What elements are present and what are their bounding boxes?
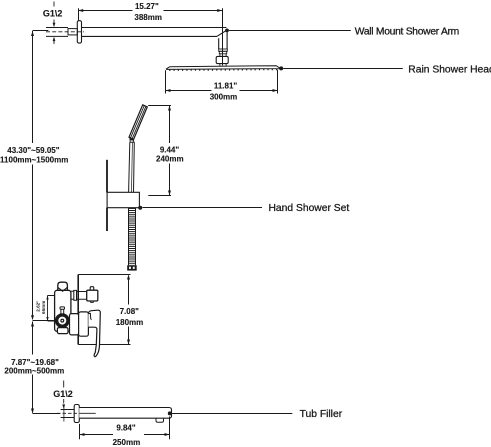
dimension 15.27" extension line right: [222, 8, 224, 65]
left dimension extension line bottom (tub spout centerline): [33, 413, 61, 415]
shower head connector: band 2: [219, 51, 226, 54]
svg-text:7.08": 7.08": [120, 307, 140, 316]
valve handle: [88, 310, 100, 357]
dimension 15.27" extension line left: [78, 8, 80, 20]
diverter bottom tick: [91, 301, 94, 302]
leader line to Hand Shower Set: [142, 207, 262, 209]
svg-text:200mm~500mm: 200mm~500mm: [4, 367, 64, 376]
valve body: [55, 290, 71, 331]
checkstop stub: [61, 309, 64, 314]
hand shower holder bracket: [107, 192, 139, 207]
svg-text:G1\2: G1\2: [43, 8, 63, 18]
slide bar upper segment: [106, 160, 108, 193]
slide bar lower segment: [106, 208, 108, 231]
valve top port cap: [58, 282, 68, 291]
valve wall line: [77, 275, 79, 345]
hand shower wand head face line: [131, 106, 146, 139]
shower head connector: nut: [216, 56, 228, 63]
shower hose ribs: [128, 209, 135, 264]
dimension 15.27"/388mm line: [78, 10, 222, 12]
svg-text:43.30"~59.05": 43.30"~59.05": [7, 146, 60, 155]
leader dot at rain shower head: [279, 66, 283, 70]
shower head connector: neck: [220, 54, 226, 57]
wall mount shower arm: wall flange: [77, 21, 81, 43]
leader dot at tub filler: [168, 411, 172, 415]
svg-text:240mm: 240mm: [156, 155, 184, 164]
svg-text:Rain Shower Head: Rain Shower Head: [408, 64, 491, 75]
svg-text:11.81": 11.81": [214, 82, 238, 91]
dimension 43.30"~59.05"/1100mm~1500mm vertical line: [32, 31, 34, 317]
svg-text:Wall Mount Shower Arm: Wall Mount Shower Arm: [355, 27, 459, 38]
svg-text:180mm: 180mm: [116, 318, 144, 327]
tub filler thread tick: [63, 405, 65, 421]
rain shower head nozzles: [170, 69, 277, 72]
dimension 2.62"/66mm bracket: [48, 296, 55, 322]
G1\2 top callout dashed line and arrows: [53, 2, 55, 45]
valve neck to wall: [71, 291, 74, 299]
svg-text:9.44": 9.44": [160, 146, 180, 155]
leader dot at hand shower holder: [138, 206, 142, 210]
wall mount shower arm: connector cylinder: [68, 29, 77, 35]
svg-text:2.62": 2.62": [36, 301, 41, 312]
svg-text:G1\2: G1\2: [53, 389, 73, 399]
leader line to Rain Shower Head: [283, 68, 403, 70]
hand shower handle: [129, 142, 135, 192]
checkstop knob (dark circle): [57, 315, 68, 326]
valve trim plate: [79, 312, 89, 336]
leader line to Wall Mount Shower Arm: [229, 30, 351, 32]
svg-text:300mm: 300mm: [210, 93, 238, 102]
svg-text:388mm: 388mm: [134, 13, 162, 22]
tub filler spout body: [79, 408, 171, 419]
rotated dimension text 2.62"/66mm: [36, 301, 46, 314]
left main dimension extension line top (arm centerline): [33, 30, 49, 32]
label Rain Shower Head: [408, 64, 491, 75]
valve handle notch: [88, 313, 91, 319]
svg-text:Tub Filler: Tub Filler: [300, 409, 343, 420]
label Hand Shower Set: [269, 203, 350, 214]
wall mount shower arm: G1/2 thread pipe: [46, 28, 68, 37]
valve neck nut: [74, 290, 77, 300]
checkstop stub cap: [60, 307, 65, 309]
tub filler wall flange: [74, 405, 79, 423]
wall mount shower arm: dashed centerline: [46, 31, 84, 33]
dimension 11.81"/300mm extension lines: [166, 70, 278, 94]
hand shower wand neck: [130, 139, 134, 143]
left dimension extension line at valve centerline: [33, 320, 56, 322]
tub filler aerator nub: [156, 418, 163, 422]
valve pipe through wall: [77, 292, 87, 300]
svg-text:Hand Shower Set: Hand Shower Set: [269, 203, 350, 214]
svg-text:66mm: 66mm: [41, 301, 46, 314]
wall mount shower arm: elbow miter and down pipe: [217, 30, 227, 49]
tub filler dashed centerline: [57, 412, 80, 414]
G1\2 bottom callout text: [53, 389, 73, 399]
valve bottom port: [57, 328, 68, 334]
valve dimension bracket bottom line: [78, 344, 130, 346]
svg-text:1100mm~1500mm: 1100mm~1500mm: [0, 156, 68, 165]
wall mount shower arm: horizontal arm pipe: [82, 28, 227, 37]
svg-text:15.27": 15.27": [135, 2, 159, 11]
svg-text:9.84": 9.84": [116, 424, 136, 433]
label Wall Mount Shower Arm: [355, 27, 459, 38]
hand shower handle inner line: [131, 142, 134, 192]
shower hose end fitting: [127, 265, 137, 270]
rain shower head slab: [166, 66, 279, 70]
G1\2 top callout text: [43, 8, 63, 18]
dimension 9.44"/240mm line: [169, 106, 171, 196]
dimension 9.44"/240mm extension lines: [148, 106, 171, 196]
valve cartridge: [70, 314, 79, 335]
dimension 9.84"/250mm line: [80, 434, 170, 436]
tub filler internal line: [79, 412, 95, 414]
valve dimension bracket top line: [78, 274, 130, 276]
diverter stub on top: [90, 287, 94, 291]
leader line to Tub Filler: [172, 413, 292, 415]
diverter box: [87, 290, 98, 301]
svg-text:250mm: 250mm: [113, 438, 141, 447]
dimension 7.08"/180mm line: [128, 276, 130, 345]
hand shower wand head: [129, 105, 147, 140]
dimension 9.84"/250mm extension lines: [80, 417, 170, 440]
shower head connector: band 1: [219, 49, 228, 51]
label Tub Filler: [300, 409, 343, 420]
tub filler thread stub: [61, 410, 75, 418]
leader dot at shower arm elbow: [225, 29, 229, 33]
G1\2 bottom dashed line and arrow: [63, 381, 65, 404]
dimension 11.81"/300mm line: [166, 90, 278, 92]
shower hose side walls: [129, 208, 136, 266]
shower head connector: stem to head: [220, 64, 226, 67]
dimension 7.87"~19.68"/200mm~500mm vertical line: [32, 322, 34, 413]
